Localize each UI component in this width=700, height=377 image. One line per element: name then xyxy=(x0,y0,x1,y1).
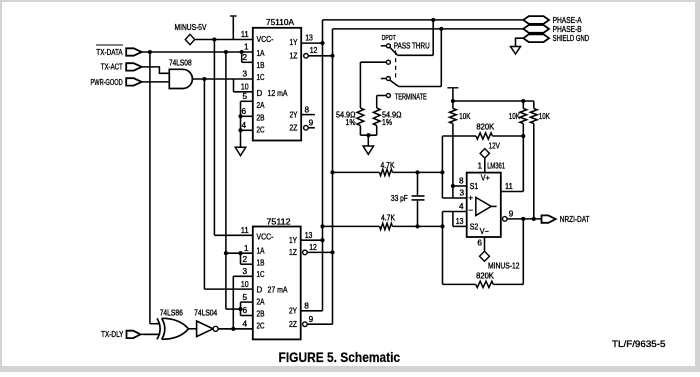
svg-text:MINUS-5V: MINUS-5V xyxy=(175,23,208,32)
svg-text:4: 4 xyxy=(459,202,464,211)
svg-text:D: D xyxy=(257,89,263,98)
svg-text:4: 4 xyxy=(241,121,246,130)
svg-text:2Z: 2Z xyxy=(289,320,297,329)
svg-text:1A: 1A xyxy=(257,246,266,255)
svg-text:6: 6 xyxy=(242,306,247,315)
svg-text:1: 1 xyxy=(244,43,249,52)
svg-text:V−: V− xyxy=(480,227,489,236)
svg-text:SHIELD GND: SHIELD GND xyxy=(553,34,590,43)
svg-text:NRZI-DAT: NRZI-DAT xyxy=(560,215,590,224)
svg-text:8: 8 xyxy=(304,302,309,311)
svg-text:75110A: 75110A xyxy=(266,18,295,27)
svg-text:2: 2 xyxy=(242,53,247,62)
svg-text:1B: 1B xyxy=(257,258,265,267)
svg-text:1Y: 1Y xyxy=(290,38,299,47)
svg-text:9: 9 xyxy=(309,315,314,324)
svg-text:820K: 820K xyxy=(476,271,494,280)
svg-text:1C: 1C xyxy=(257,73,265,82)
svg-text:2Y: 2Y xyxy=(290,110,299,119)
svg-text:27 mA: 27 mA xyxy=(268,286,289,295)
svg-text:2C: 2C xyxy=(257,126,265,135)
svg-text:8: 8 xyxy=(459,177,464,186)
svg-text:2Z: 2Z xyxy=(290,124,298,133)
svg-text:2: 2 xyxy=(242,255,247,264)
svg-text:MINUS-12: MINUS-12 xyxy=(488,261,520,270)
svg-text:3: 3 xyxy=(242,70,247,79)
svg-text:11: 11 xyxy=(505,182,513,191)
svg-text:10: 10 xyxy=(241,280,249,289)
svg-text:1B: 1B xyxy=(257,61,265,70)
svg-text:1: 1 xyxy=(244,244,249,253)
svg-text:1A: 1A xyxy=(257,49,266,58)
svg-text:VCC-: VCC- xyxy=(257,35,274,44)
svg-text:4: 4 xyxy=(242,320,247,329)
svg-text:1C: 1C xyxy=(257,270,265,279)
svg-text:33 pF: 33 pF xyxy=(391,194,408,203)
svg-text:6: 6 xyxy=(477,239,482,248)
svg-text:12: 12 xyxy=(310,46,318,55)
svg-text:74LS86: 74LS86 xyxy=(160,309,184,318)
svg-text:TX-DATA: TX-DATA xyxy=(96,48,123,57)
svg-text:S2: S2 xyxy=(470,222,479,231)
svg-text:2B: 2B xyxy=(257,310,265,319)
svg-text:3: 3 xyxy=(242,267,247,276)
svg-text:4.7K: 4.7K xyxy=(381,214,396,223)
svg-text:1: 1 xyxy=(477,162,482,171)
svg-text:PWR-GOOD: PWR-GOOD xyxy=(91,78,123,87)
svg-text:1%: 1% xyxy=(346,118,356,127)
svg-text:2A: 2A xyxy=(257,298,266,307)
svg-text:13: 13 xyxy=(305,34,313,43)
svg-text:2A: 2A xyxy=(257,101,266,110)
svg-text:820K: 820K xyxy=(476,122,494,131)
svg-text:10: 10 xyxy=(241,83,249,92)
svg-text:1Y: 1Y xyxy=(289,236,298,245)
svg-text:9: 9 xyxy=(509,210,514,219)
svg-text:12: 12 xyxy=(309,243,317,252)
svg-text:TX-ACT: TX-ACT xyxy=(101,63,123,72)
svg-text:10K: 10K xyxy=(459,112,471,121)
svg-text:2C: 2C xyxy=(257,322,265,331)
svg-text:13: 13 xyxy=(305,231,313,240)
svg-text:V+: V+ xyxy=(481,174,490,183)
svg-text:TX-DLY: TX-DLY xyxy=(101,330,124,339)
svg-text:11: 11 xyxy=(241,30,249,39)
svg-text:1Z: 1Z xyxy=(290,52,298,61)
svg-text:9: 9 xyxy=(309,119,314,128)
svg-text:10K: 10K xyxy=(509,112,521,121)
svg-text:+: + xyxy=(468,193,473,203)
svg-text:12 mA: 12 mA xyxy=(268,89,289,98)
svg-text:TL/F/9635-5: TL/F/9635-5 xyxy=(612,339,666,350)
svg-text:PHASE-B: PHASE-B xyxy=(553,25,582,34)
svg-text:12V: 12V xyxy=(489,141,501,150)
svg-text:D: D xyxy=(257,286,263,295)
svg-text:5: 5 xyxy=(242,92,247,101)
svg-text:PASS THRU: PASS THRU xyxy=(394,42,430,51)
svg-text:6: 6 xyxy=(241,107,246,116)
svg-text:74LS04: 74LS04 xyxy=(194,309,218,318)
svg-text:10K: 10K xyxy=(539,112,551,121)
svg-text:13: 13 xyxy=(456,217,464,226)
svg-text:TERMINATE: TERMINATE xyxy=(395,92,427,101)
svg-text:2B: 2B xyxy=(257,114,265,123)
svg-text:8: 8 xyxy=(305,105,310,114)
svg-text:75112: 75112 xyxy=(267,217,292,226)
svg-text:PHASE-A: PHASE-A xyxy=(553,16,583,25)
svg-text:1%: 1% xyxy=(382,118,392,127)
svg-text:LM361: LM361 xyxy=(487,162,505,171)
svg-text:1Z: 1Z xyxy=(289,248,297,257)
svg-text:3: 3 xyxy=(459,189,464,198)
svg-text:11: 11 xyxy=(241,226,249,235)
svg-text:VCC-: VCC- xyxy=(257,233,274,242)
svg-text:2Y: 2Y xyxy=(289,307,298,316)
svg-text:−: − xyxy=(468,205,473,215)
svg-text:5: 5 xyxy=(242,293,247,302)
svg-text:74LS08: 74LS08 xyxy=(169,58,192,67)
svg-text:FIGURE 5. Schematic: FIGURE 5. Schematic xyxy=(279,350,401,365)
svg-text:S1: S1 xyxy=(470,182,479,191)
